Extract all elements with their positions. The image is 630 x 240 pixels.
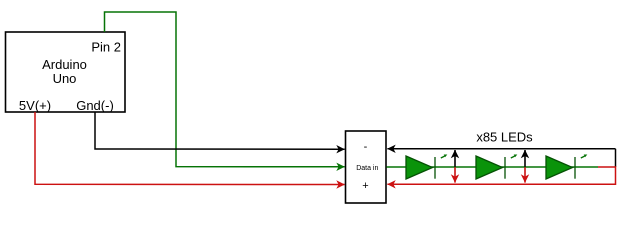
- svg-text:5V(+): 5V(+): [19, 98, 51, 113]
- svg-text:Uno: Uno: [53, 71, 77, 86]
- svg-text:-: -: [364, 141, 368, 153]
- svg-text:Gnd(-): Gnd(-): [76, 98, 114, 113]
- svg-text:Data in: Data in: [356, 165, 378, 172]
- svg-text:+: +: [362, 180, 368, 192]
- svg-text:Arduino: Arduino: [42, 57, 87, 72]
- svg-text:Pin 2: Pin 2: [91, 40, 121, 55]
- svg-text:x85 LEDs: x85 LEDs: [476, 130, 533, 145]
